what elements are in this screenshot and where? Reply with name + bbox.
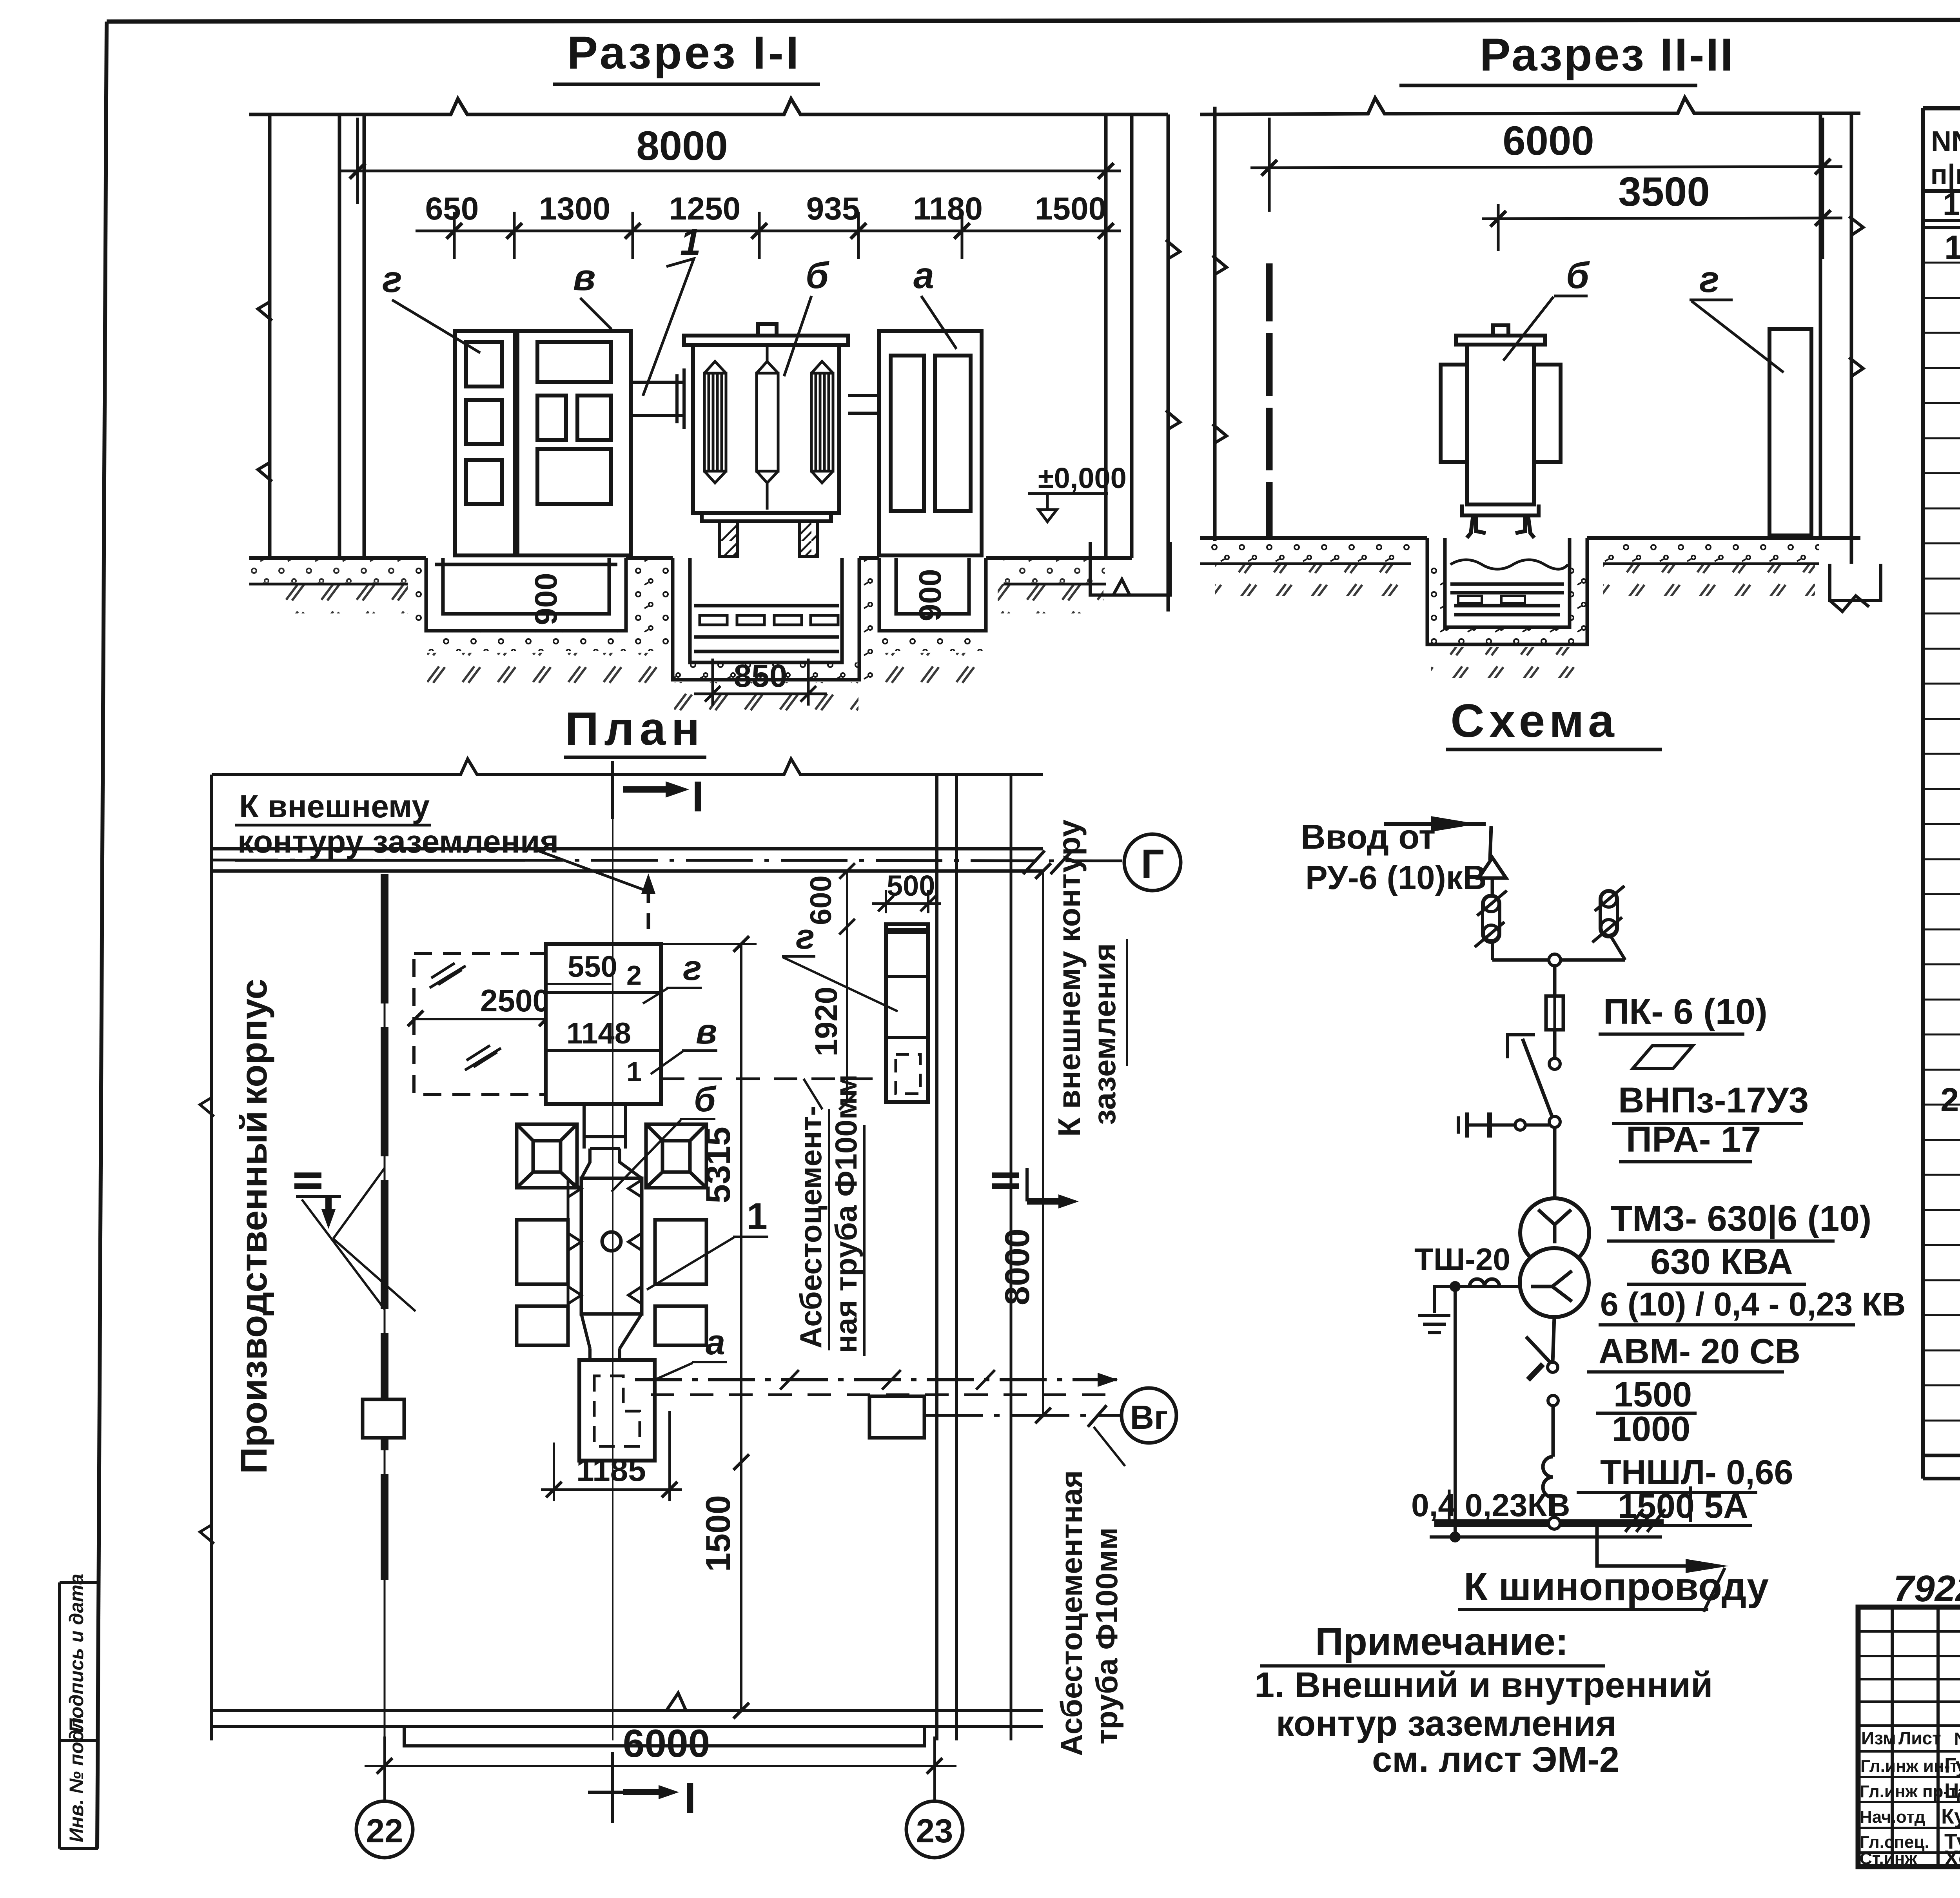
- right wall footing: [1090, 542, 1170, 595]
- svg-text:ПРА- 17: ПРА- 17: [1626, 1120, 1761, 1159]
- wire: drop to arrester: [1490, 826, 1491, 860]
- svg-text:б: б: [1566, 255, 1590, 296]
- signature rows: [1860, 1756, 1960, 1868]
- svg-text:корпус: корпус: [233, 979, 275, 1105]
- svg-text:г: г: [1699, 259, 1719, 300]
- axis Vg: [924, 1414, 1120, 1417]
- svg-text:1000: 1000: [1612, 1410, 1690, 1449]
- svg-text:1: 1: [1944, 229, 1960, 266]
- svg-text:Гузенко: Гузенко: [1944, 1754, 1960, 1777]
- svg-text:см. лист ЭМ-2: см. лист ЭМ-2: [1372, 1740, 1619, 1780]
- section I mark bottom: [611, 1752, 614, 1823]
- floor: [1200, 536, 1860, 540]
- duct transformer-a: [848, 396, 879, 413]
- cabinet a: [879, 331, 982, 555]
- left partition: [1266, 263, 1273, 538]
- svg-text:2500: 2500: [480, 983, 550, 1018]
- channel rails: [700, 615, 838, 625]
- svg-text:900: 900: [913, 569, 947, 621]
- svg-text:I: I: [684, 1774, 696, 1822]
- svg-text:Ст.инж: Ст.инж: [1860, 1849, 1917, 1868]
- transformer I-I: [684, 324, 848, 521]
- svg-text:ТМЗ- 630|6 (10): ТМЗ- 630|6 (10): [1610, 1199, 1871, 1239]
- svg-text:г: г: [683, 949, 702, 988]
- wire: tie bar: [1492, 958, 1625, 962]
- svg-text:РУ-6 (10)кВ: РУ-6 (10)кВ: [1305, 859, 1487, 896]
- left stamp column: [60, 1582, 98, 1849]
- concrete around pits: [626, 558, 673, 631]
- wire below transformer: [1553, 1317, 1554, 1362]
- dim 850: [694, 659, 827, 706]
- svg-text:АВМ- 20 СВ: АВМ- 20 СВ: [1599, 1332, 1800, 1371]
- wire: [1491, 878, 1494, 896]
- header row labels: [1861, 1728, 1960, 1749]
- svg-text:1: 1: [1943, 187, 1960, 221]
- neck: [584, 1104, 626, 1149]
- switch bottom contact: [1549, 1116, 1560, 1127]
- axis circles 22 23: [356, 1801, 413, 1858]
- axis G circle: [1124, 834, 1181, 891]
- svg-text:Вг: Вг: [1130, 1399, 1168, 1436]
- svg-text:Производственный: Производственный: [233, 1110, 275, 1474]
- svg-text:Царев: Царев: [1944, 1779, 1960, 1803]
- svg-text:в: в: [696, 1012, 717, 1051]
- svg-text:б: б: [694, 1080, 717, 1119]
- centerline I-I: [612, 819, 613, 1740]
- wire to transformer: [1553, 1127, 1557, 1199]
- bottom walls: [212, 1709, 1043, 1712]
- svg-text:контур заземления: контур заземления: [1276, 1704, 1617, 1744]
- svg-text:22: 22: [366, 1813, 403, 1850]
- breaker AVM-20SV: [1548, 1362, 1558, 1372]
- earthing knife branch: [1490, 1123, 1549, 1127]
- svg-text:630 КВА: 630 КВА: [1650, 1242, 1793, 1282]
- right wall: [1820, 113, 1863, 564]
- fuse PK-6(10): [1546, 996, 1563, 1030]
- duct v-transformer: [631, 368, 684, 429]
- wire down: [1553, 966, 1557, 996]
- svg-text:п|п: п|п: [1930, 159, 1960, 191]
- cable from KN to right cabinet: [661, 1078, 886, 1080]
- thick dashed wall on axis 22: [381, 874, 388, 1580]
- CT TNShL coil: [1543, 1457, 1553, 1497]
- svg-text:900: 900: [528, 573, 563, 625]
- floor line: [249, 556, 1132, 560]
- node junction: [1549, 954, 1561, 966]
- dim 3500: [1482, 204, 1842, 251]
- wire: incoming arrow: [1384, 822, 1486, 826]
- metering riser wire: [1454, 1287, 1457, 1536]
- KN cabinets rect: [546, 944, 661, 1104]
- LV busbar: [1434, 1519, 1664, 1527]
- svg-text:1185: 1185: [576, 1452, 646, 1488]
- dim 8000 vertical right: [1042, 871, 1044, 1415]
- left pit: [426, 558, 626, 631]
- cabinet g: [455, 331, 515, 555]
- svg-text:Подпись и дата: Подпись и дата: [65, 1574, 87, 1733]
- svg-text:Разрез II-II: Разрез II-II: [1480, 29, 1735, 81]
- transformer plan: [517, 1124, 706, 1345]
- right wall: [1106, 107, 1227, 611]
- svg-text:550: 550: [568, 950, 617, 983]
- svg-text:1500: 1500: [1613, 1375, 1692, 1414]
- svg-text:ВНПз-17У3: ВНПз-17У3: [1618, 1080, 1809, 1120]
- svg-text:Асбестоцемент-: Асбестоцемент-: [793, 1106, 828, 1348]
- svg-text:1: 1: [747, 1196, 768, 1237]
- stamp outer: [1858, 1607, 1960, 1867]
- svg-text:1: 1: [680, 221, 701, 263]
- switch blade: [1523, 1039, 1552, 1117]
- svg-text:контуру заземления: контуру заземления: [238, 824, 559, 860]
- stamp rows left part: [1858, 1631, 1960, 1853]
- middle pit: [673, 558, 859, 680]
- top wall double line: [212, 847, 1043, 851]
- dim 6000 bottom: [385, 1737, 935, 1801]
- svg-text:6000: 6000: [623, 1722, 710, 1766]
- cable dash-dot route: [635, 1378, 1117, 1381]
- svg-text:Схема: Схема: [1450, 695, 1619, 747]
- ground at TSh: [1434, 1287, 1455, 1313]
- ground hatch: [1215, 564, 1411, 596]
- small box on left wall: [363, 1399, 404, 1438]
- svg-text:К внешнему контуру: К внешнему контуру: [1052, 819, 1087, 1137]
- fuse link F1: [1475, 878, 1507, 960]
- svg-text:6 (10) / 0,4 - 0,23 КВ: 6 (10) / 0,4 - 0,23 КВ: [1600, 1286, 1906, 1323]
- svg-text:Хейфец: Хейфец: [1944, 1846, 1960, 1870]
- right capacitor cabinet: [886, 924, 928, 1102]
- labels b g: [1566, 255, 1719, 300]
- svg-text:23: 23: [916, 1813, 953, 1850]
- svg-text:1500: 1500: [1035, 191, 1106, 227]
- svg-text:Инв. № подл.: Инв. № подл.: [65, 1712, 87, 1842]
- switch VNP top contact: [1549, 1058, 1560, 1069]
- wire to bus: [1552, 1497, 1555, 1523]
- cabinet v: [517, 331, 631, 555]
- svg-text:г: г: [382, 259, 402, 300]
- svg-text:2: 2: [626, 960, 642, 991]
- svg-text:I: I: [692, 773, 704, 821]
- right pit: [879, 558, 986, 631]
- bushings: [704, 345, 833, 510]
- svg-text:б: б: [806, 255, 829, 296]
- svg-text:NN: NN: [1931, 126, 1960, 157]
- svg-text:8000: 8000: [636, 123, 728, 169]
- svg-text:3500: 3500: [1618, 169, 1710, 215]
- transformer II: [1441, 325, 1561, 538]
- header: [1930, 126, 1960, 191]
- axis G dash-dot: [212, 860, 1122, 861]
- wire: [1553, 1030, 1557, 1058]
- table grid: [1923, 108, 1960, 1479]
- dim 6000: [1250, 118, 1842, 259]
- svg-text:1500: 1500: [699, 1495, 737, 1572]
- fuse link F2: [1592, 886, 1625, 960]
- svg-text:Лист: Лист: [1898, 1728, 1941, 1748]
- svg-text:а: а: [706, 1323, 725, 1362]
- svg-text:ТНШЛ- 0,66: ТНШЛ- 0,66: [1600, 1453, 1793, 1492]
- cross leader lines left: [302, 1168, 416, 1311]
- svg-text:№ докум.: № докум.: [1954, 1729, 1960, 1749]
- svg-text:II: II: [984, 1170, 1028, 1192]
- section I mark top: [613, 761, 687, 819]
- svg-text:заземления: заземления: [1087, 943, 1122, 1125]
- svg-text:труба Ф100мм: труба Ф100мм: [1089, 1527, 1124, 1744]
- svg-text:935: 935: [806, 191, 860, 227]
- svg-text:а: а: [913, 255, 934, 296]
- svg-text:в: в: [573, 257, 595, 298]
- svg-text:1148: 1148: [566, 1017, 631, 1050]
- pit II: [1427, 538, 1587, 644]
- transformer supports: [720, 521, 818, 557]
- junction dot riser-bus: [1450, 1531, 1461, 1542]
- bottom funnel + cabinet a: [581, 1314, 642, 1360]
- dim 1185: [554, 1411, 670, 1501]
- svg-text:Нач.отд: Нач.отд: [1860, 1807, 1926, 1827]
- svg-text:8000: 8000: [998, 1228, 1036, 1305]
- dim row 650/1300/1250/935/1180/1500: [416, 212, 1121, 259]
- svg-text:500: 500: [887, 869, 935, 902]
- right wall corridor lines: [937, 775, 956, 1740]
- svg-text:Г: Г: [1141, 841, 1164, 887]
- svg-text:Асбестоцементная: Асбестоцементная: [1054, 1470, 1089, 1756]
- dashed capacitor area: [414, 953, 546, 1094]
- ground hatch below: [274, 584, 408, 613]
- svg-text:Изм: Изм: [1861, 1728, 1896, 1748]
- svg-text:1: 1: [626, 1056, 642, 1087]
- parallelogram mark: [1633, 1046, 1693, 1069]
- svg-text:План: План: [565, 702, 705, 755]
- slash marks on bus: [1625, 1509, 1665, 1532]
- svg-text:650: 650: [425, 191, 479, 227]
- left building edge: [210, 775, 213, 1740]
- arrester triangle: [1479, 858, 1506, 878]
- dim 8000: [341, 118, 1121, 259]
- ceiling: [1200, 98, 1860, 114]
- svg-text:II: II: [286, 1170, 330, 1192]
- svg-text:Кувшинский: Кувшинский: [1941, 1805, 1960, 1828]
- svg-text:1180: 1180: [913, 191, 983, 227]
- svg-text:Разрез I-I: Разрез I-I: [567, 27, 801, 79]
- top boundary line with breaks: [212, 759, 1043, 775]
- svg-text:ТШ-20: ТШ-20: [1414, 1242, 1510, 1277]
- svg-text:1. Внешний и внутренний: 1. Внешний и внутренний: [1254, 1665, 1713, 1705]
- svg-text:0,4 0,23КВ: 0,4 0,23КВ: [1411, 1488, 1570, 1523]
- svg-text:1920: 1920: [809, 987, 844, 1056]
- stamp verticals left part: [1892, 1607, 1960, 1867]
- feeder to busway: [1597, 1526, 1692, 1566]
- wire down to CT: [1552, 1406, 1555, 1457]
- svg-text:6000: 6000: [1503, 118, 1594, 164]
- ceiling line: [249, 99, 1168, 114]
- svg-text:5315: 5315: [699, 1127, 737, 1203]
- equipment labels: [382, 221, 934, 300]
- svg-text:7922/9: 7922/9: [1893, 1568, 1960, 1609]
- left wall: [258, 114, 364, 558]
- floor slab strips: [249, 583, 1106, 586]
- dims 500 600 1920: [886, 890, 928, 913]
- svg-text:1300: 1300: [539, 191, 610, 227]
- dim 5315 / 1500 vertical: [740, 944, 742, 1711]
- transformer TM3-630: [1520, 1198, 1589, 1267]
- svg-text:2: 2: [1940, 1081, 1959, 1119]
- svg-text:ная труба Ф100мм: ная труба Ф100мм: [829, 1074, 863, 1353]
- svg-text:ПК- 6 (10): ПК- 6 (10): [1603, 992, 1768, 1032]
- svg-text:±0,000: ±0,000: [1038, 462, 1127, 494]
- svg-text:К внешнему: К внешнему: [239, 789, 430, 824]
- cabinet g right: [1769, 329, 1811, 535]
- bowtie clamps: [568, 1180, 642, 1304]
- svg-text:Примечание:: Примечание:: [1315, 1620, 1568, 1664]
- svg-text:г: г: [796, 917, 815, 956]
